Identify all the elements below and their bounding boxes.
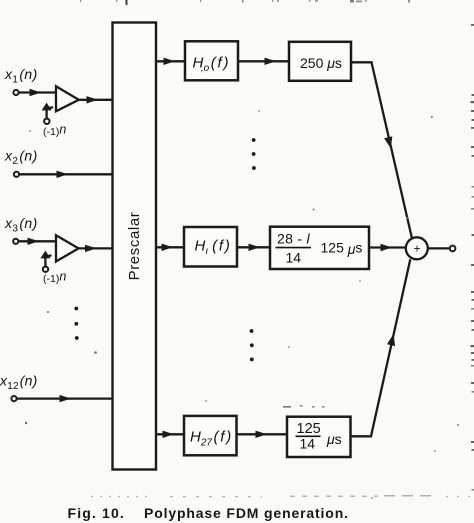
wire x3 input xyxy=(18,240,56,242)
modulator triangle Q1 xyxy=(56,86,79,111)
scan artifact tick above prescalar xyxy=(126,0,128,5)
prescalar block xyxy=(113,23,157,470)
(-1)^n arrow row1 xyxy=(47,107,53,119)
vertical ellipsis filter column upper xyxy=(252,138,256,170)
wire 250us to summer xyxy=(351,62,412,238)
svg-text:Fig. 10.: Fig. 10. xyxy=(68,505,125,521)
scan artifact dotted rule above caption xyxy=(91,495,474,498)
wire x12 to prescalar xyxy=(17,397,113,399)
svg-text:125 μs: 125 μs xyxy=(321,240,363,258)
arrowhead x3 to prescalar xyxy=(85,245,97,252)
svg-text:Prescalar: Prescalar xyxy=(126,212,143,281)
svg-text:+: + xyxy=(413,242,420,256)
output wire xyxy=(428,247,450,249)
vertical ellipsis left column xyxy=(74,307,78,340)
svg-text:250 μs: 250 μs xyxy=(300,55,342,71)
wire x2 to prescalar xyxy=(19,173,112,175)
arrowhead x2 xyxy=(57,171,69,178)
arrowhead into summer xyxy=(381,244,393,251)
input terminal x1 xyxy=(13,90,18,95)
filter block Hi(f) xyxy=(184,227,237,267)
wire H0 to 250us xyxy=(238,60,289,62)
delay block 125/14 us xyxy=(287,417,351,457)
arrowhead to H0 xyxy=(164,58,176,65)
arrowhead to 125/14 block xyxy=(256,431,268,438)
svg-text:H,o(f): H,o(f) xyxy=(193,55,231,75)
arrowhead x12 xyxy=(60,395,72,402)
svg-text:Hı(f): Hı(f) xyxy=(195,238,232,258)
wire prescalar to Hi xyxy=(156,246,184,248)
arrowhead x1 input xyxy=(30,89,42,96)
svg-text:14: 14 xyxy=(286,250,302,266)
filter block H27(f) xyxy=(184,416,237,455)
arrowhead on top diagonal xyxy=(384,136,392,148)
delay block 250us xyxy=(289,42,351,81)
scan specks xyxy=(25,110,459,499)
svg-text:x3(n): x3(n) xyxy=(4,215,38,234)
scan artifact dashes above 125/14 block xyxy=(283,405,325,408)
summer node xyxy=(406,237,428,259)
svg-text:x1(n): x1(n) xyxy=(4,66,38,85)
svg-text:14: 14 xyxy=(300,436,316,452)
arrowhead to 250us xyxy=(265,58,277,65)
wire delay to summer xyxy=(369,246,406,248)
vertical ellipsis filter column lower xyxy=(250,329,254,361)
scan artifact top edge fragments xyxy=(80,0,410,3)
arrowhead to H27 xyxy=(163,431,175,438)
arrowhead to Hi xyxy=(162,244,174,251)
modulator triangle Q2 xyxy=(56,235,79,261)
wire prescalar to H27 xyxy=(156,433,184,435)
arrowhead x1 to prescalar xyxy=(87,96,99,103)
wire x3 to prescalar xyxy=(79,247,113,249)
delay block (28-l)/14 125us xyxy=(270,227,369,269)
scan artifact right edge fragments xyxy=(471,24,474,491)
wire Hi to delay block xyxy=(237,246,270,248)
filter block H0(f) xyxy=(185,41,238,80)
wire x1 to prescalar xyxy=(79,99,113,101)
svg-text:x2(n): x2(n) xyxy=(4,148,38,167)
output terminal xyxy=(450,246,456,252)
svg-text:Polyphase FDM generation.: Polyphase FDM generation. xyxy=(144,505,349,521)
wire x1 input xyxy=(19,91,56,93)
input terminal x12 xyxy=(11,396,16,401)
arrowhead to delay block xyxy=(249,244,261,251)
input label x1(n) xyxy=(4,66,38,85)
wire H27 to delay block xyxy=(237,433,288,435)
arrowhead x3 input xyxy=(28,238,40,245)
wire 125/14 to summer xyxy=(351,259,411,436)
(-1)^n terminal row1 xyxy=(44,119,49,124)
input terminal x2 xyxy=(14,172,19,177)
svg-text:μs: μs xyxy=(326,431,342,447)
arrowhead on bottom diagonal xyxy=(387,334,395,346)
input terminal x3 xyxy=(13,239,18,244)
svg-text:x12(n): x12(n) xyxy=(0,373,37,392)
svg-text:28 - l: 28 - l xyxy=(277,231,311,247)
wire prescalar to H0 xyxy=(156,60,185,62)
(-1)^n arrow row3 xyxy=(45,255,51,267)
(-1)^n terminal row3 xyxy=(43,267,48,272)
